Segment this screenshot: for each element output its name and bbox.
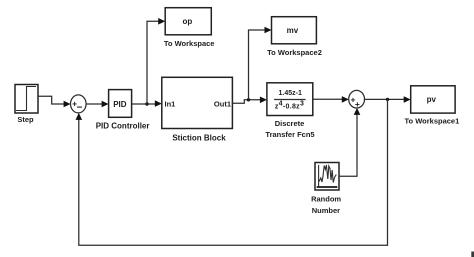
svg-text:To Workspace: To Workspace (164, 39, 215, 48)
svg-text:1.45z-1: 1.45z-1 (279, 90, 302, 97)
svg-text:Number: Number (312, 206, 340, 215)
arrowhead into To Workspace (158, 18, 165, 25)
wire PID to Stiction Block (132, 103, 157, 105)
svg-text:Transfer Fcn5: Transfer Fcn5 (265, 130, 314, 139)
arrowhead into To Workspace2 (265, 27, 272, 34)
block PID Controller (109, 90, 132, 118)
block Step (15, 85, 38, 114)
svg-text:pv: pv (427, 95, 437, 104)
arrowhead into Sum2 bottom (354, 108, 361, 115)
svg-text:Step: Step (17, 115, 34, 124)
svg-text:mv: mv (287, 26, 299, 35)
arrowhead into Sum2 left (342, 96, 349, 103)
wire Sum1 to PID (86, 103, 104, 105)
sum S2 (349, 90, 365, 108)
wire Stiction Out1 to Discrete Transfer Fcn5 (232, 100, 261, 104)
wire Transfer Fcn to Sum2 (313, 98, 344, 100)
wire Step to Sum1 (38, 96, 66, 104)
svg-text:op: op (183, 17, 193, 26)
arrowhead into Stiction In1 (155, 100, 162, 107)
svg-text:To Workspace2: To Workspace2 (267, 48, 322, 57)
sum S1 (71, 95, 87, 113)
block Discrete Transfer Fcn5 (267, 83, 313, 116)
corner artifact bottom right (471, 252, 474, 257)
wire branch up to To Workspace (147, 21, 160, 104)
arrowhead into To Workspace1 (404, 96, 411, 103)
svg-text:−: − (77, 102, 83, 113)
svg-text:PID: PID (113, 100, 127, 109)
svg-text:Stiction Block: Stiction Block (172, 134, 226, 143)
arrowhead into Transfer Fcn (260, 97, 267, 104)
wire Random Number to Sum2 (339, 114, 357, 177)
svg-text:Out1: Out1 (214, 100, 231, 109)
block To Workspace1 (pv) (411, 86, 455, 113)
arrowhead into Sum1 left (64, 101, 71, 108)
junction dot at PID output branch (145, 102, 148, 105)
svg-text:To Workspace1: To Workspace1 (405, 116, 460, 125)
block Stiction Block (162, 77, 233, 128)
block To Workspace2 (mv) (272, 17, 317, 44)
wire feedback from Sum2 output to Sum1 (79, 99, 388, 245)
svg-text:Discrete: Discrete (275, 119, 305, 128)
arrowhead into PID (102, 101, 109, 108)
block To Workspace (op) (165, 8, 211, 35)
svg-text:Random: Random (311, 195, 341, 204)
wire branch up to To Workspace2 (249, 30, 267, 100)
svg-text:In1: In1 (165, 100, 176, 109)
junction dot feedback branch (386, 98, 389, 101)
junction dot before Transfer Fcn (247, 98, 250, 101)
svg-text:PID Controller: PID Controller (96, 122, 150, 131)
block Random Number (315, 163, 339, 191)
arrowhead into Sum1 bottom (76, 113, 83, 120)
svg-text:+: + (355, 99, 360, 109)
wire Sum2 to To Workspace1 (365, 98, 406, 100)
